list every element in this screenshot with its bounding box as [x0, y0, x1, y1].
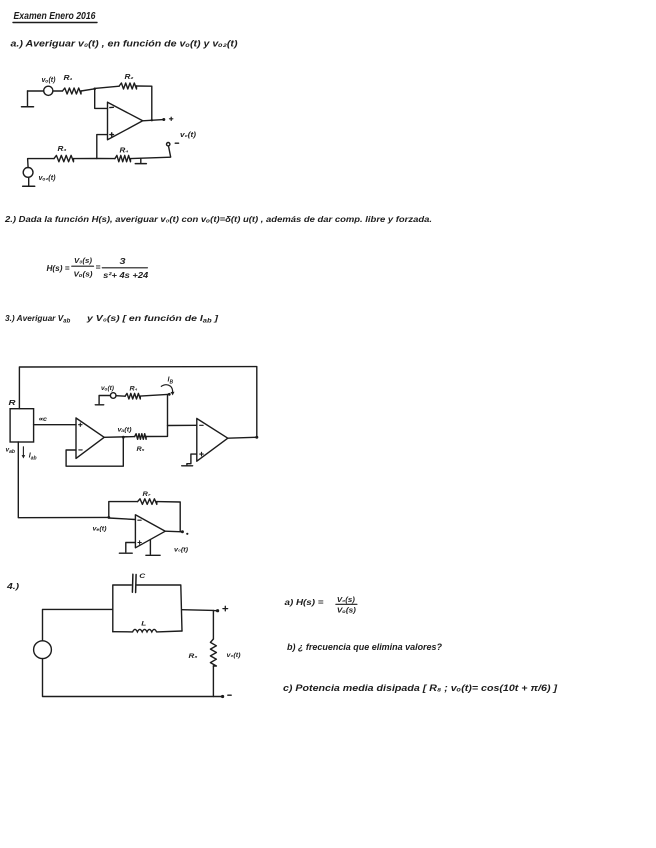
- svg-text:s²+ 4s +24: s²+ 4s +24: [103, 271, 149, 280]
- wire left rail to vb node: [18, 442, 109, 518]
- svg-text:C: C: [139, 573, 145, 580]
- terminal +: [213, 606, 227, 612]
- svg-text:Vₒ(s): Vₒ(s): [74, 270, 94, 279]
- wire top: [43, 609, 113, 640]
- wire feedback top: [95, 86, 120, 88]
- wire top feedback: [19, 367, 256, 438]
- wire bottom: [43, 659, 222, 697]
- svg-text:vₒ₂(t): vₒ₂(t): [39, 175, 57, 182]
- title: Examen Enero 2016: [13, 10, 97, 23]
- wire U4 output: [165, 530, 188, 553]
- wire to inverting input: [95, 89, 108, 109]
- svg-text:R₁: R₁: [64, 75, 74, 82]
- svg-text:Examen Enero 2016: Examen Enero 2016: [14, 10, 96, 22]
- wire buffer feedback loop: [66, 437, 123, 466]
- resistor R4: [115, 148, 131, 162]
- inductor L: [113, 621, 182, 632]
- op-amp U2 buffer: [76, 418, 104, 458]
- wire summing to op-amp: [168, 424, 197, 426]
- svg-text:H(s) =: H(s) =: [47, 263, 70, 273]
- node A junction: [93, 88, 96, 91]
- op-amp U4: [135, 515, 165, 548]
- output terminal +: [162, 117, 173, 121]
- svg-text:=: =: [96, 262, 101, 272]
- svg-text:3.) Averiguar Vab: 3.) Averiguar Vab: [5, 313, 71, 325]
- svg-text:V₀(s): V₀(s): [74, 256, 93, 265]
- problem 4 label: [6, 581, 20, 591]
- svg-text:4.): 4.): [6, 581, 20, 591]
- wire: [28, 159, 54, 168]
- wire: [140, 393, 170, 396]
- resistor R7: [138, 491, 157, 504]
- svg-text:a.) Averiguar v₀(t) , en funci: a.) Averiguar v₀(t) , en función de vₒ(t…: [11, 39, 238, 49]
- node vb: [93, 516, 111, 533]
- wire feedback right: [137, 86, 152, 120]
- capacitor C: [132, 573, 145, 593]
- label node c: [38, 416, 47, 423]
- svg-text:R₄: R₄: [130, 386, 138, 393]
- svg-text:c) Potencia media disipada [ R: c) Potencia media disipada [ R₈ ; vₒ(t)=…: [283, 683, 558, 693]
- source vg: [34, 641, 52, 659]
- svg-text:R₇: R₇: [143, 491, 152, 498]
- wire: [157, 502, 180, 532]
- ground: [95, 396, 110, 405]
- ground: [135, 159, 146, 164]
- label vo(t): [180, 132, 197, 139]
- problem a) statement: [11, 39, 238, 49]
- question c): [283, 683, 558, 693]
- svg-text:R₃: R₃: [58, 146, 67, 153]
- wire: [28, 90, 44, 92]
- svg-text:y V₀(s) [ en función de Iab: y V₀(s) [ en función de Iab ]: [86, 313, 219, 325]
- arrow Iab: [22, 447, 37, 462]
- op-amp U3: [197, 419, 228, 462]
- wire: [131, 157, 171, 158]
- ground U4 body: [146, 540, 160, 556]
- op-amp U1: [108, 102, 143, 140]
- svg-text:vₐ(t): vₐ(t): [118, 427, 133, 434]
- ground noninverting U3: [182, 454, 197, 466]
- svg-text:vₒ(t): vₒ(t): [101, 385, 115, 392]
- svg-text:2.) Dada la función H(s), aver: 2.) Dada la función H(s), averiguar v₀(t…: [4, 214, 432, 224]
- resistor box R (element ab): [9, 398, 34, 442]
- wire right: [182, 609, 213, 612]
- wire U3 output: [228, 436, 258, 439]
- svg-text:∝c: ∝c: [38, 416, 47, 423]
- wire output: [143, 119, 164, 121]
- svg-text:3: 3: [120, 256, 126, 266]
- formula H(s): [47, 256, 149, 280]
- svg-text:Vₒ(s): Vₒ(s): [337, 608, 357, 615]
- source vg(t): [101, 385, 116, 398]
- label vab: [6, 447, 15, 456]
- svg-text:R₂: R₂: [125, 74, 134, 81]
- wire box to buffer: [34, 424, 76, 426]
- wire to summing vertical: [146, 394, 167, 436]
- ground: [23, 177, 35, 186]
- svg-text:L: L: [141, 621, 146, 628]
- resistor R4b: [116, 386, 140, 400]
- wire: [53, 90, 63, 92]
- resistor R5: [135, 434, 146, 453]
- svg-text:b) ¿ frecuencia que elimina va: b) ¿ frecuencia que elimina valores?: [287, 642, 443, 652]
- output terminal -: [167, 143, 179, 157]
- resistor R8: [189, 611, 242, 697]
- source vg(t): [42, 77, 57, 95]
- svg-text:vₒ(t): vₒ(t): [42, 77, 57, 84]
- wire: [74, 158, 97, 160]
- ground: [22, 91, 34, 107]
- problem 3 statement: [5, 313, 218, 325]
- svg-text:vₑ(t): vₑ(t): [93, 526, 108, 533]
- svg-text:a) H(s) =: a) H(s) =: [285, 597, 324, 607]
- svg-text:V₀(s): V₀(s): [337, 597, 356, 604]
- resistor R2: [119, 74, 136, 89]
- svg-text:R: R: [9, 398, 17, 407]
- svg-text:v₀(t): v₀(t): [227, 652, 242, 659]
- problem 2 statement: [4, 214, 432, 224]
- wire feedback R7: [109, 502, 138, 518]
- resistor R3: [54, 146, 74, 162]
- wire noninverting input: [97, 135, 108, 159]
- question b): [287, 642, 443, 652]
- wire: [81, 89, 95, 91]
- ground noninverting U4: [119, 543, 135, 554]
- question a): [285, 597, 357, 615]
- svg-text:v₀(t): v₀(t): [180, 132, 197, 139]
- wire: [97, 158, 115, 160]
- resistor R1: [63, 75, 82, 94]
- svg-text:v₀(t): v₀(t): [174, 547, 189, 554]
- source vg2(t): [23, 168, 56, 183]
- LC box left/top/right: [113, 585, 182, 632]
- wire buffer output: [104, 427, 135, 439]
- wire to inverting U4: [109, 518, 136, 520]
- svg-text:R₈: R₈: [189, 653, 198, 660]
- terminal -: [221, 695, 231, 698]
- arrow IB current: [161, 377, 175, 396]
- svg-text:R₄: R₄: [120, 148, 129, 155]
- svg-text:R₅: R₅: [137, 446, 145, 453]
